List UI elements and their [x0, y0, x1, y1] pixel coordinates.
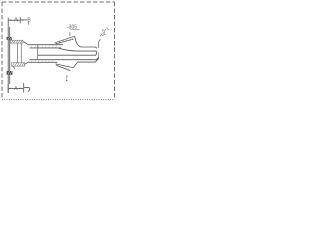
- tip extension line lower part: [98, 53, 100, 60]
- tube inner top line: [30, 47, 62, 49]
- o-ring section upper (hatched block): [7, 37, 12, 40]
- leader tick from 305 to wing: [69, 32, 71, 36]
- wall hatching bottom: [31, 60, 53, 63]
- arrowhead right (bottom): [21, 88, 24, 90]
- tube outer bottom line right segment: [78, 58, 98, 62]
- plug end vertical inside tube: [36, 45, 38, 59]
- border top dashed: [2, 1, 115, 3]
- tube outer bottom line left segment: [29, 61, 57, 63]
- hub left vertical: [16, 43, 18, 62]
- annotation 305 underline row: [71, 29, 80, 31]
- wall hatching top: [31, 45, 57, 48]
- bottom dim tick right: [23, 83, 25, 93]
- tail under lower flange: [13, 66, 15, 69]
- leader tick + dot below bottom wing: [66, 75, 68, 78]
- plate right face vertical: [9, 27, 11, 84]
- flange upper (hatched bar): [10, 40, 23, 43]
- border right dashed: [114, 2, 116, 100]
- border left dashed: [1, 2, 3, 100]
- dim line A (top): [9, 19, 20, 21]
- arrowhead left of A: [9, 19, 12, 21]
- small tick under label B: [28, 22, 30, 25]
- tube outer top line: [29, 44, 63, 46]
- trailing line with hook (bottom): [24, 88, 30, 92]
- fillet upper (flange to tube): [23, 42, 29, 45]
- arrowhead left (bottom): [9, 88, 12, 90]
- dim tick left (extension of plate face): [7, 18, 9, 24]
- tip extension line vertical: [98, 42, 100, 48]
- arrowhead B pointing left: [21, 19, 24, 21]
- border bottom dotted: [2, 99, 115, 101]
- inner rod lower line: [38, 52, 97, 55]
- hub right vertical: [20, 43, 22, 62]
- cut diagonal into bore (top wing lance): [59, 48, 97, 52]
- bottom dim tick left: [7, 84, 9, 93]
- bottom dim line A: [9, 87, 24, 89]
- dim tick mid (top): [19, 17, 21, 23]
- barb wing top: [55, 36, 97, 48]
- fillet lower (flange to tube): [24, 62, 29, 64]
- leader hook at top of tip extension: [99, 40, 101, 42]
- flange lower (hatched bar): [11, 63, 25, 66]
- tube inner bottom line: [30, 58, 99, 60]
- o-ring section lower (hatched block): [7, 71, 13, 75]
- plate left face vertical: [7, 23, 9, 93]
- dim line B (top): [21, 19, 28, 21]
- arrowhead right of A: [17, 19, 20, 21]
- barb wing bottom: [56, 62, 79, 71]
